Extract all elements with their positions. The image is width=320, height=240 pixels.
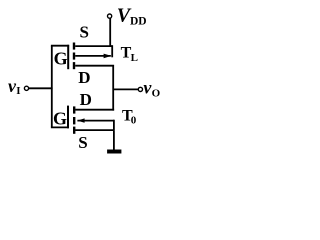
wire gate lead TL — [51, 45, 69, 47]
transistor T0 channel segment bottom — [73, 127, 75, 134]
output terminal vO — [138, 87, 142, 91]
svg-text:D: D — [80, 90, 92, 109]
svg-text:D: D — [78, 68, 90, 87]
input terminal vI — [24, 86, 28, 90]
svg-text:G: G — [53, 109, 67, 129]
transistor T0 channel segment middle — [73, 117, 75, 124]
wire gate bus — [51, 46, 53, 128]
transistor TL gate bar — [67, 45, 69, 69]
wire drain lead T0 — [75, 109, 114, 111]
transistor T0 body lead with NMOS arrow — [77, 118, 114, 122]
wire source lead T0 — [75, 129, 114, 131]
svg-text:S: S — [80, 23, 89, 42]
transistor T0 channel segment top — [73, 106, 75, 113]
wire source rail TL — [111, 45, 113, 57]
wire source lead TL — [75, 45, 112, 47]
node output junction — [113, 88, 138, 90]
label TL — [121, 44, 138, 64]
transistor TL channel segment top — [73, 43, 75, 50]
transistor T0 gate bar — [67, 106, 69, 129]
wire drain lead TL — [75, 65, 113, 67]
svg-text:0: 0 — [131, 114, 137, 126]
label vI — [8, 76, 21, 97]
transistor TL channel segment bottom — [73, 62, 75, 69]
ground — [107, 150, 121, 154]
wire body to source tie T0 — [113, 120, 115, 130]
label VDD — [117, 4, 147, 27]
label vO — [143, 78, 160, 100]
transistor TL channel segment middle — [73, 53, 75, 60]
svg-text:G: G — [54, 49, 68, 69]
svg-text:I: I — [16, 85, 20, 97]
VDD terminal — [108, 14, 112, 18]
svg-text:DD: DD — [130, 16, 147, 28]
label T0 — [122, 107, 137, 126]
wire VDD stub — [109, 18, 111, 47]
svg-text:S: S — [78, 133, 87, 152]
wire ground leg — [113, 130, 115, 150]
wire drain rail to output — [112, 66, 114, 111]
wire input — [29, 87, 53, 89]
transistor TL body lead with PMOS arrow — [75, 54, 111, 59]
wire gate lead T0 — [51, 126, 69, 128]
svg-text:O: O — [152, 87, 161, 99]
svg-text:L: L — [131, 52, 138, 64]
